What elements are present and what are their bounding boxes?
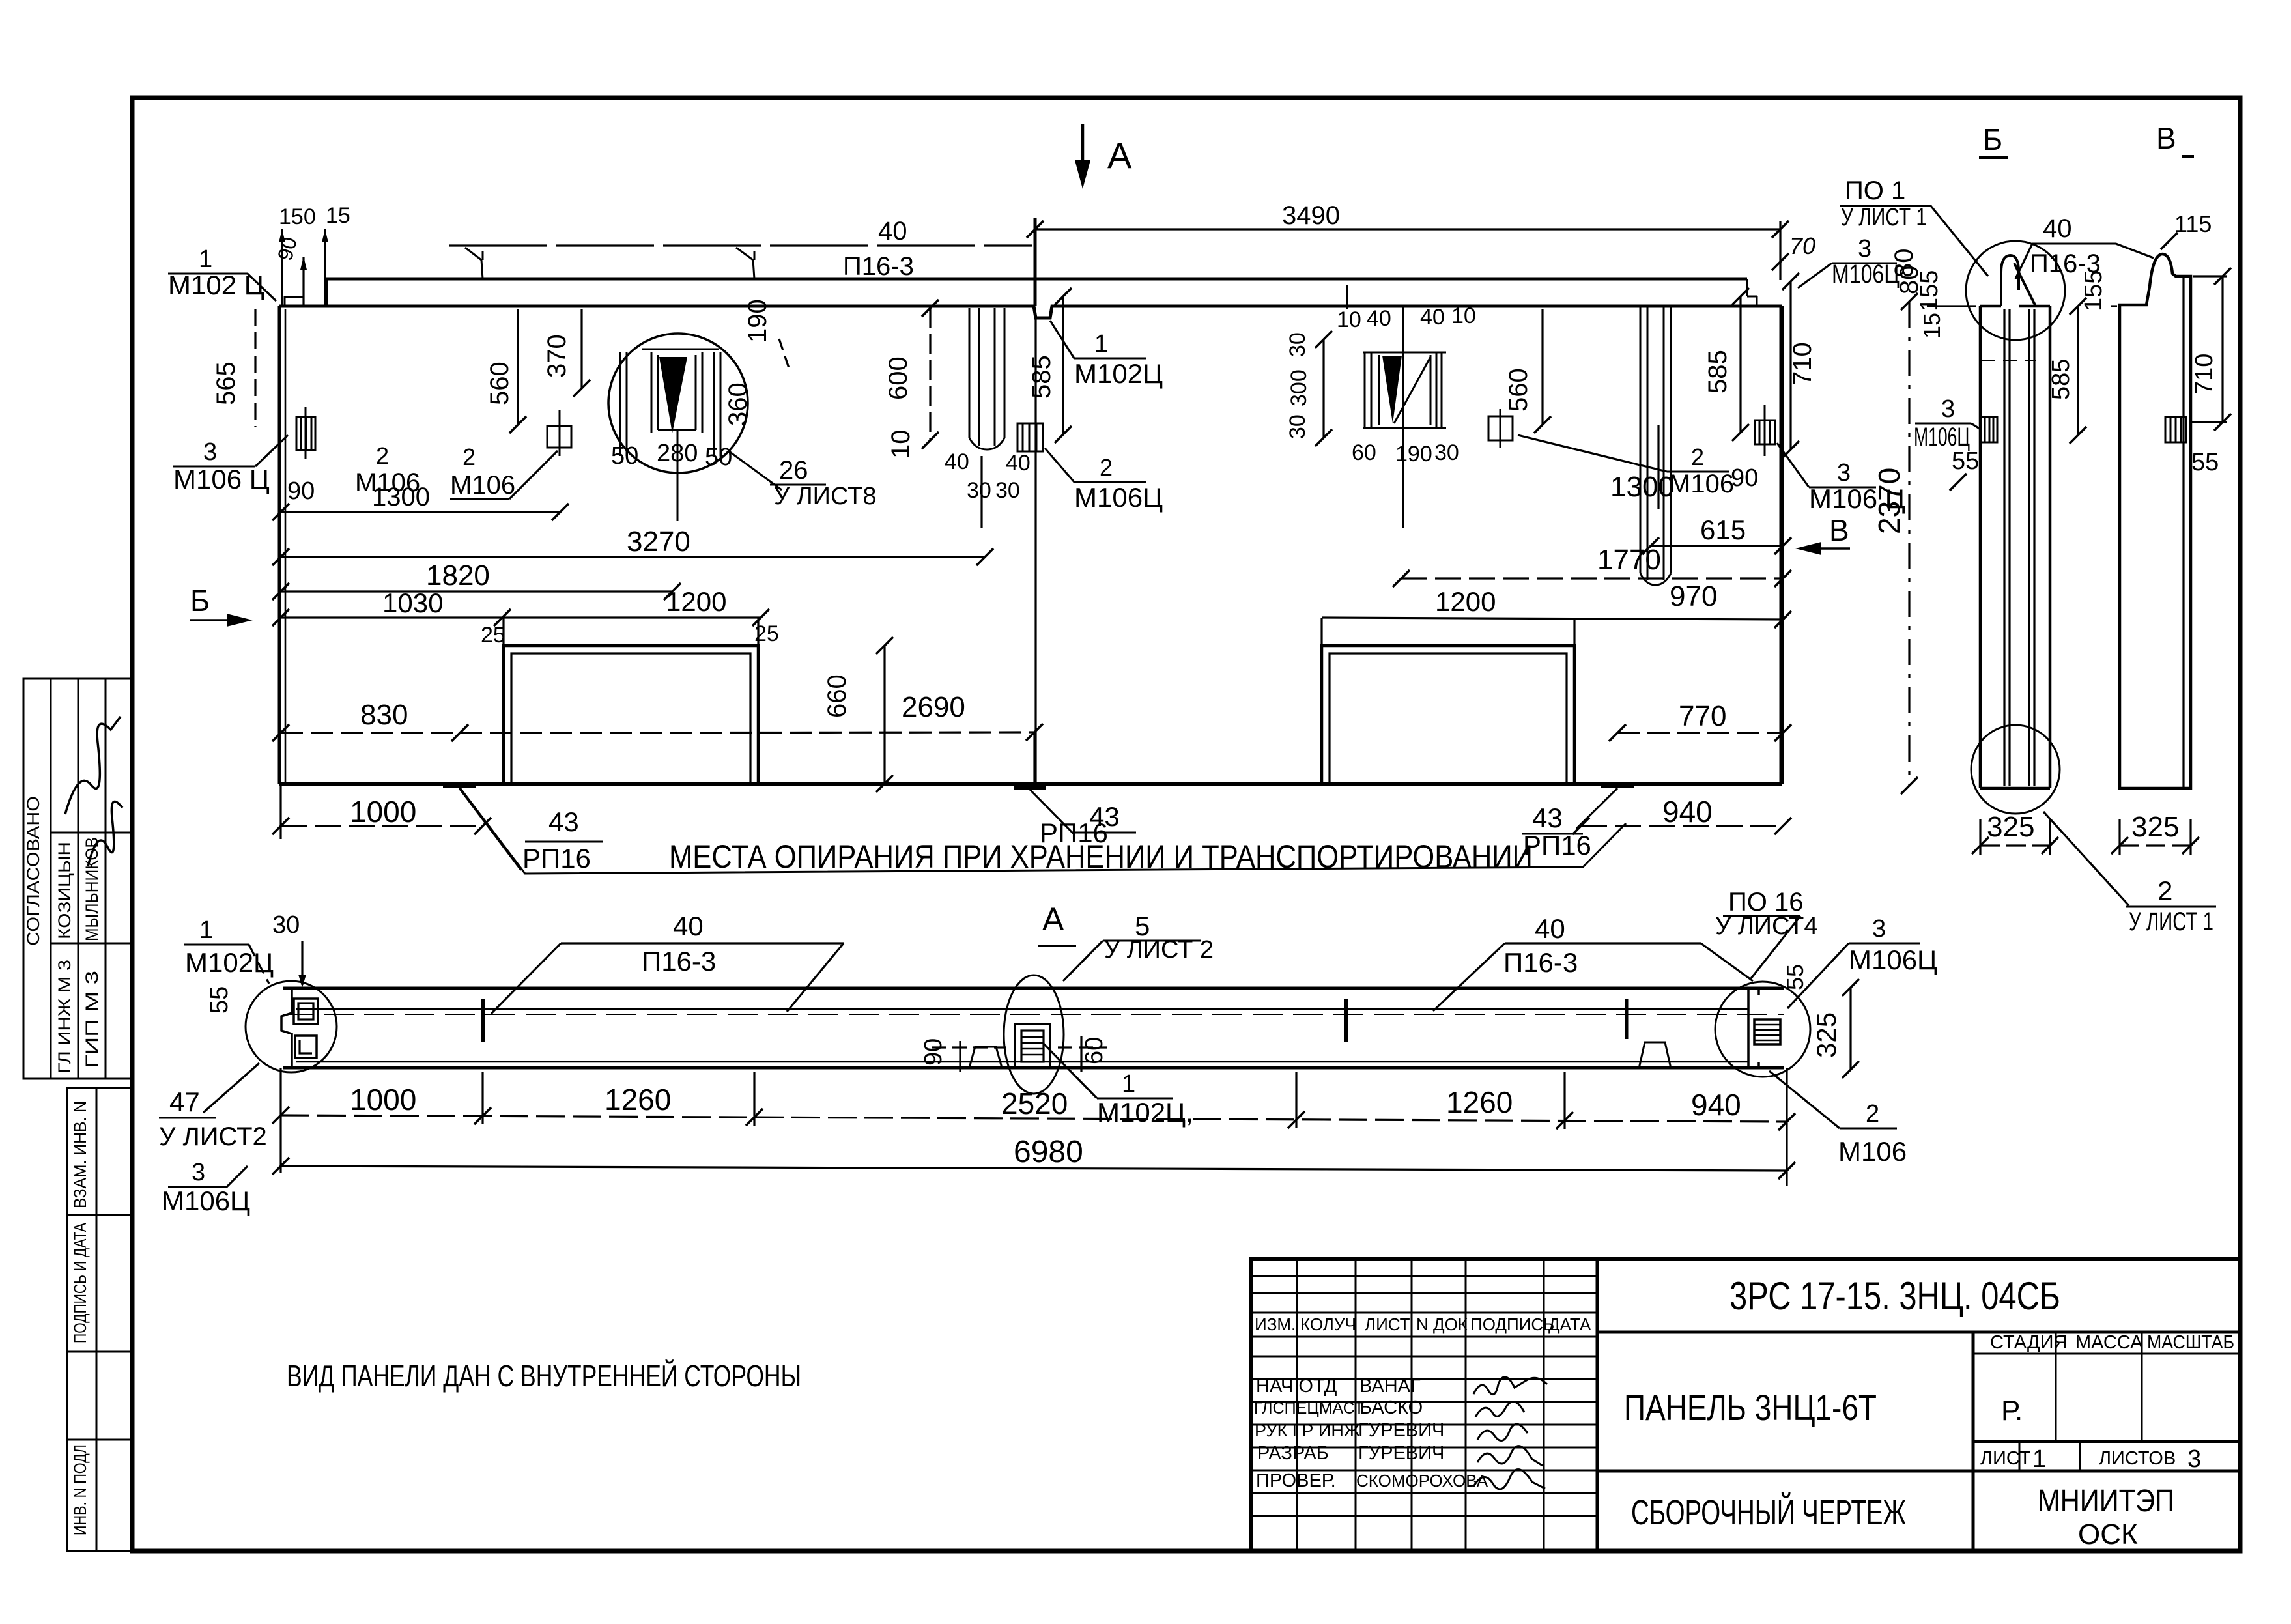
svg-text:3: 3 xyxy=(192,1159,205,1186)
svg-text:940: 940 xyxy=(1691,1088,1741,1122)
svg-text:370: 370 xyxy=(543,334,571,378)
dim line 1770 xyxy=(1401,577,1783,579)
lifting hook xyxy=(2001,255,2019,306)
svg-text:40: 40 xyxy=(1535,913,1565,944)
svg-text:90: 90 xyxy=(1731,464,1758,492)
svg-text:Б: Б xyxy=(1983,122,2002,156)
svg-text:30: 30 xyxy=(1285,332,1310,357)
svg-text:ГЛСПЕЦМАСТ: ГЛСПЕЦМАСТ xyxy=(1254,1399,1364,1417)
svg-text:1820: 1820 xyxy=(426,560,490,591)
svg-text:560: 560 xyxy=(1504,368,1533,412)
svg-text:40: 40 xyxy=(1367,306,1391,331)
svg-text:2: 2 xyxy=(1100,454,1113,481)
svg-text:МНИИТЭП: МНИИТЭП xyxy=(2038,1484,2174,1518)
svg-text:1: 1 xyxy=(1094,330,1108,358)
svg-text:10: 10 xyxy=(1337,307,1361,332)
anchor M106C center xyxy=(1017,423,1043,451)
section A cut line xyxy=(1034,218,1037,306)
svg-text:2690: 2690 xyxy=(902,691,965,723)
svg-text:М102 Ц: М102 Ц xyxy=(168,270,264,300)
svg-text:43: 43 xyxy=(548,806,579,837)
channel slot 2 xyxy=(1640,306,1671,585)
detail circle bottom of section xyxy=(1971,725,2060,814)
svg-text:2370: 2370 xyxy=(1872,468,1906,534)
plan right end cap xyxy=(1748,988,1780,1068)
svg-text:ГУРЕВИЧ: ГУРЕВИЧ xyxy=(1358,1420,1444,1441)
dimension 3490 xyxy=(1035,228,1780,230)
svg-text:1: 1 xyxy=(199,917,213,944)
svg-text:40: 40 xyxy=(673,911,704,941)
svg-text:60: 60 xyxy=(1081,1037,1108,1064)
svg-text:710: 710 xyxy=(2191,354,2218,395)
svg-text:155: 155 xyxy=(2080,270,2107,311)
section A arrow top xyxy=(1081,124,1085,181)
svg-text:М102Ц: М102Ц xyxy=(185,947,274,978)
svg-text:55: 55 xyxy=(1782,964,1808,990)
svg-text:43: 43 xyxy=(1532,803,1563,833)
svg-text:55: 55 xyxy=(206,986,233,1014)
svg-text:2: 2 xyxy=(1691,444,1704,470)
svg-text:П16-3: П16-3 xyxy=(1503,947,1578,978)
section V outline xyxy=(2120,254,2191,788)
signature squiggles in stamp xyxy=(65,717,122,866)
center anchor M102C xyxy=(1015,1024,1050,1067)
svg-text:1200: 1200 xyxy=(666,586,726,617)
svg-text:А: А xyxy=(1042,901,1064,937)
P16-3 callout plan 1 xyxy=(561,942,844,944)
plan ticks xyxy=(481,999,485,1042)
svg-text:3: 3 xyxy=(1837,459,1851,487)
anchor M106 right-mid xyxy=(1488,409,1513,448)
svg-text:830: 830 xyxy=(360,699,408,731)
dim line 1820 xyxy=(281,590,672,592)
svg-text:У ЛИСТ 1: У ЛИСТ 1 xyxy=(2129,907,2213,936)
plan right detail circle xyxy=(1715,982,1810,1077)
dim line 1300 left xyxy=(281,511,560,513)
svg-text:90: 90 xyxy=(920,1038,947,1066)
svg-text:1000: 1000 xyxy=(350,795,416,829)
P16-3 callout line xyxy=(449,244,1032,246)
svg-text:БАСКО: БАСКО xyxy=(1359,1397,1423,1418)
svg-text:40: 40 xyxy=(1420,305,1445,330)
svg-text:РП16: РП16 xyxy=(1040,818,1108,848)
svg-text:М102Ц,: М102Ц, xyxy=(1097,1097,1193,1128)
svg-text:3490: 3490 xyxy=(1282,201,1340,230)
support mark left + label 43/RP16 xyxy=(443,783,476,788)
svg-text:2: 2 xyxy=(462,444,476,470)
dim line 1030 1200 xyxy=(281,616,761,618)
svg-text:КОЗИЦЫН: КОЗИЦЫН xyxy=(55,842,74,939)
approval stamp block left xyxy=(23,679,132,1079)
svg-text:1: 1 xyxy=(2032,1446,2046,1473)
svg-text:3: 3 xyxy=(2187,1446,2201,1473)
svg-text:3: 3 xyxy=(1858,235,1871,263)
svg-text:1200: 1200 xyxy=(1435,586,1496,617)
svg-text:90: 90 xyxy=(287,477,315,505)
svg-text:ВАНАГ: ВАНАГ xyxy=(1359,1376,1421,1397)
svg-text:РП16: РП16 xyxy=(1523,830,1591,861)
anchor in section B xyxy=(1980,417,1997,442)
dim line 3270 xyxy=(281,556,985,558)
svg-text:280: 280 xyxy=(657,440,698,467)
svg-text:10: 10 xyxy=(1451,304,1476,328)
channel slot 1 xyxy=(969,308,1004,449)
svg-text:ВЗАМ. ИНВ. N: ВЗАМ. ИНВ. N xyxy=(70,1101,90,1208)
dim line 1000 left bottom xyxy=(281,825,483,827)
svg-text:ПРОВЕР.: ПРОВЕР. xyxy=(1256,1470,1336,1491)
svg-text:ГЛ ИНЖ М 3: ГЛ ИНЖ М 3 xyxy=(55,960,74,1074)
dim line 770 right xyxy=(1617,732,1783,734)
tick on top edge xyxy=(1346,285,1348,309)
svg-text:585: 585 xyxy=(1027,355,1056,399)
svg-text:30: 30 xyxy=(995,478,1020,503)
svg-text:970: 970 xyxy=(1670,580,1717,612)
svg-text:2: 2 xyxy=(376,442,389,469)
dim line 615 xyxy=(1651,545,1783,547)
svg-text:ЛИСТОВ: ЛИСТОВ xyxy=(2099,1448,2176,1469)
anchor M106C right edge xyxy=(1755,405,1775,456)
svg-text:360: 360 xyxy=(724,382,752,426)
svg-text:770: 770 xyxy=(1679,700,1726,732)
svg-text:ПАНЕЛЬ 3НЦ1-6Т: ПАНЕЛЬ 3НЦ1-6Т xyxy=(1624,1387,1877,1428)
svg-text:ЛИСТ: ЛИСТ xyxy=(1980,1448,2031,1469)
anchor M106C left edge xyxy=(296,407,315,459)
svg-text:585: 585 xyxy=(2047,359,2075,400)
svg-text:55: 55 xyxy=(2191,449,2219,476)
dim line 940 right bottom xyxy=(1581,825,1783,827)
svg-text:710: 710 xyxy=(1788,342,1817,386)
detail circle on channel xyxy=(608,334,748,473)
svg-text:У ЛИСТ 2: У ЛИСТ 2 xyxy=(1104,936,1214,963)
P16-3 callout plan 2 xyxy=(1505,942,1701,944)
svg-text:М106Ц: М106Ц xyxy=(162,1186,250,1216)
svg-text:М106: М106 xyxy=(1838,1136,1907,1167)
svg-text:ПОДПИСЬ И ДАТА: ПОДПИСЬ И ДАТА xyxy=(70,1223,90,1343)
top ledge P16-3 xyxy=(326,278,1747,281)
svg-text:МАССА: МАССА xyxy=(2075,1332,2143,1353)
svg-text:N ДОК: N ДОК xyxy=(1416,1315,1468,1334)
channel anchor detail right (uncircled) xyxy=(1363,306,1446,528)
window opening 2 xyxy=(1322,646,1574,784)
svg-text:3РС 17-15. 3НЦ. 04СБ: 3РС 17-15. 3НЦ. 04СБ xyxy=(1729,1274,2060,1318)
svg-text:3: 3 xyxy=(1872,915,1886,943)
svg-text:ВИД ПАНЕЛИ ДАН С ВНУТРЕННЕ: ВИД ПАНЕЛИ ДАН С ВНУТРЕННЕЙ СТОРОНЫ xyxy=(287,1359,801,1393)
svg-text:50: 50 xyxy=(705,444,732,471)
svg-text:40: 40 xyxy=(945,449,969,474)
svg-text:ГИП М 3: ГИП М 3 xyxy=(82,971,102,1068)
svg-text:30: 30 xyxy=(1285,414,1310,439)
svg-text:565: 565 xyxy=(212,362,240,405)
svg-text:6980: 6980 xyxy=(1014,1135,1083,1169)
svg-text:М106Ц: М106Ц xyxy=(1849,945,1937,975)
svg-text:190: 190 xyxy=(1395,442,1432,466)
svg-text:70: 70 xyxy=(1789,233,1815,259)
svg-text:ДАТА: ДАТА xyxy=(1548,1315,1591,1334)
svg-text:В: В xyxy=(2156,121,2176,155)
plan left detail circle xyxy=(246,981,337,1072)
svg-text:80: 80 xyxy=(1890,249,1918,278)
svg-text:47: 47 xyxy=(169,1087,200,1117)
svg-text:РУК ГР ИНЖ: РУК ГР ИНЖ xyxy=(1255,1421,1360,1440)
underline of note xyxy=(459,787,1626,874)
svg-text:55: 55 xyxy=(1952,448,1979,475)
panel outline front view xyxy=(278,306,281,784)
svg-text:190: 190 xyxy=(743,299,772,343)
svg-text:П16-3: П16-3 xyxy=(642,946,716,976)
svg-text:М106 Ц: М106 Ц xyxy=(173,464,270,494)
svg-text:У ЛИСТ 1: У ЛИСТ 1 xyxy=(1841,204,1927,231)
svg-text:У ЛИСТ2: У ЛИСТ2 xyxy=(159,1122,267,1151)
svg-text:М102Ц: М102Ц xyxy=(1074,358,1163,389)
svg-text:ЛИСТ: ЛИСТ xyxy=(1365,1315,1410,1334)
svg-text:60: 60 xyxy=(1352,440,1376,465)
svg-text:10: 10 xyxy=(887,430,915,459)
svg-text:СОГЛАСОВАНО: СОГЛАСОВАНО xyxy=(23,796,43,946)
svg-text:СБОРОЧНЫЙ ЧЕРТЕЖ: СБОРОЧНЫЙ ЧЕРТЕЖ xyxy=(1631,1492,1906,1532)
svg-text:600: 600 xyxy=(884,356,913,400)
plan left end cap xyxy=(281,988,318,1068)
svg-text:1770: 1770 xyxy=(1597,544,1661,576)
svg-text:3: 3 xyxy=(203,438,217,466)
svg-text:26: 26 xyxy=(779,456,808,485)
svg-text:В: В xyxy=(1829,513,1849,547)
svg-text:1030: 1030 xyxy=(382,588,443,618)
svg-text:1: 1 xyxy=(199,246,212,273)
svg-text:3270: 3270 xyxy=(627,526,690,558)
svg-text:М106Ц: М106Ц xyxy=(1074,482,1163,513)
svg-text:2: 2 xyxy=(1866,1100,1879,1128)
main dim line plan xyxy=(281,1115,1787,1122)
title block xyxy=(1251,1259,2240,1551)
svg-text:615: 615 xyxy=(1700,515,1746,545)
trapezoid rib 2 xyxy=(1639,1042,1671,1068)
svg-text:1300: 1300 xyxy=(1610,471,1674,503)
svg-text:3: 3 xyxy=(1941,395,1955,423)
dim 2370 xyxy=(1908,302,1910,786)
svg-text:1000: 1000 xyxy=(350,1083,416,1117)
svg-text:ПОДПИСЬ: ПОДПИСЬ xyxy=(1470,1315,1554,1334)
anchor M106 left-mid xyxy=(547,410,571,456)
svg-text:660: 660 xyxy=(823,674,851,718)
svg-text:КОЛУЧ: КОЛУЧ xyxy=(1300,1315,1356,1334)
svg-text:30: 30 xyxy=(272,911,300,939)
channel cross-section inside circle xyxy=(620,349,720,521)
svg-text:У ЛИСТ4: У ЛИСТ4 xyxy=(1715,913,1817,940)
plan center detail ellipse xyxy=(1004,975,1064,1094)
svg-text:Б: Б xyxy=(190,584,210,618)
svg-text:ПО 1: ПО 1 xyxy=(1845,177,1905,205)
svg-text:М106: М106 xyxy=(450,471,515,500)
signatures in title block xyxy=(1473,1377,1547,1489)
svg-text:50: 50 xyxy=(611,442,638,470)
extension lines windows xyxy=(281,618,1574,839)
svg-text:30: 30 xyxy=(967,478,991,503)
dim line 830 / 2690 xyxy=(281,732,460,734)
dim line 6980 xyxy=(281,1166,1787,1171)
svg-text:2520: 2520 xyxy=(1001,1087,1068,1120)
svg-text:Р.: Р. xyxy=(2001,1395,2023,1427)
svg-text:РАЗРАБ: РАЗРАБ xyxy=(1257,1443,1329,1464)
svg-text:1: 1 xyxy=(1122,1070,1135,1098)
svg-text:У ЛИСТ8: У ЛИСТ8 xyxy=(774,483,876,510)
svg-text:РП16: РП16 xyxy=(522,843,591,874)
trapezoid rib 1 xyxy=(969,1047,1002,1068)
dim line 970 right + 1200 xyxy=(1322,618,1783,620)
svg-text:150: 150 xyxy=(279,205,316,229)
support mark mid + label xyxy=(1014,784,1046,790)
svg-text:25: 25 xyxy=(481,623,505,648)
svg-text:30: 30 xyxy=(1434,440,1459,465)
svg-text:115: 115 xyxy=(2174,210,2212,237)
svg-text:40: 40 xyxy=(1006,451,1031,476)
svg-text:1260: 1260 xyxy=(605,1083,671,1117)
top-left notch xyxy=(285,297,304,306)
svg-text:А: А xyxy=(1107,135,1132,176)
svg-text:40: 40 xyxy=(2043,214,2072,243)
window opening 1 xyxy=(504,646,758,784)
svg-text:15: 15 xyxy=(326,203,350,228)
svg-text:1300: 1300 xyxy=(372,483,430,511)
inventory stamp block left xyxy=(67,1088,132,1551)
svg-text:15: 15 xyxy=(1918,313,1945,339)
leader to detail label 26 xyxy=(728,451,782,490)
dashes inside strip xyxy=(1981,360,2036,361)
svg-text:НАЧ ОТД: НАЧ ОТД xyxy=(1256,1376,1337,1397)
anchor in section V xyxy=(2165,417,2186,442)
svg-text:560: 560 xyxy=(485,362,514,405)
svg-text:ИНВ. N ПОДЛ: ИНВ. N ПОДЛ xyxy=(70,1444,90,1535)
svg-text:ОСК: ОСК xyxy=(2078,1518,2138,1550)
svg-text:СТАДИЯ: СТАДИЯ xyxy=(1990,1332,2067,1353)
svg-text:325: 325 xyxy=(2131,811,2179,843)
svg-text:300: 300 xyxy=(1287,369,1311,406)
plan body xyxy=(283,987,1784,990)
svg-text:ИЗМ.: ИЗМ. xyxy=(1255,1315,1296,1334)
extension verticals plan xyxy=(281,1068,1787,1186)
svg-text:40: 40 xyxy=(878,217,907,246)
support mark right + label xyxy=(1601,783,1634,788)
svg-text:ГУРЕВИЧ: ГУРЕВИЧ xyxy=(1358,1443,1444,1464)
svg-text:940: 940 xyxy=(1662,795,1713,829)
svg-text:СКОМОРОХОВА: СКОМОРОХОВА xyxy=(1356,1471,1488,1490)
svg-text:МАСШТАБ: МАСШТАБ xyxy=(2147,1332,2234,1353)
svg-text:585: 585 xyxy=(1703,350,1732,393)
svg-text:2: 2 xyxy=(2157,876,2172,906)
label 47/U LIST2 xyxy=(203,1063,259,1113)
svg-text:325: 325 xyxy=(1987,811,2034,843)
svg-text:М106: М106 xyxy=(1669,470,1734,498)
label 2/U LIST1 xyxy=(2043,812,2129,905)
svg-text:325: 325 xyxy=(1811,1012,1842,1058)
detail circle top of section xyxy=(1966,241,2065,340)
section B strip xyxy=(1980,306,2050,788)
svg-text:П16-3: П16-3 xyxy=(843,252,914,281)
svg-text:1260: 1260 xyxy=(1446,1085,1513,1119)
